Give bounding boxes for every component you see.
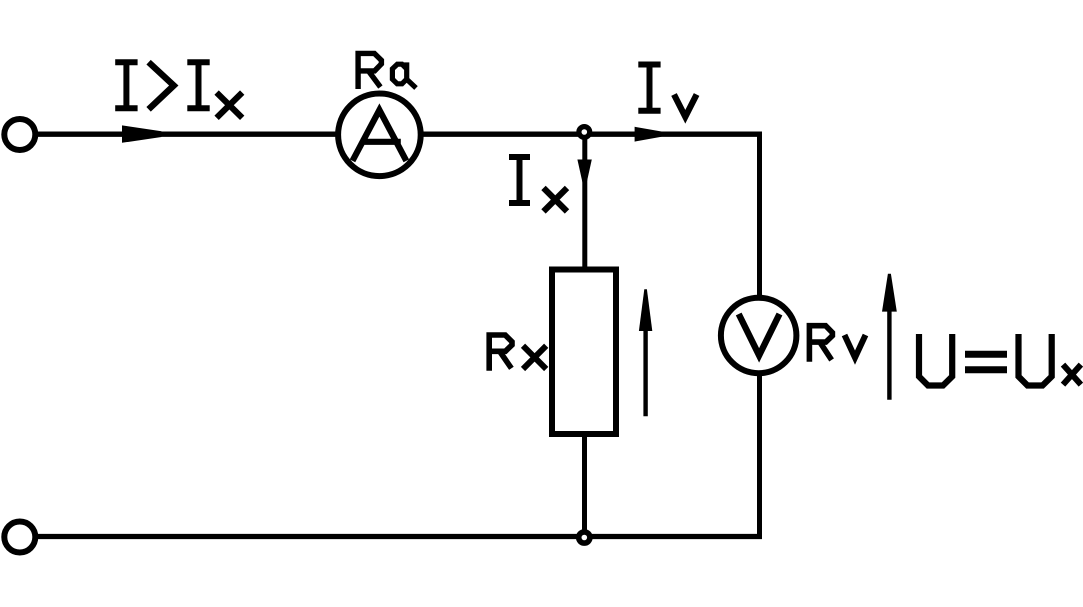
label Ra (358, 53, 416, 89)
wire bottom (35, 534, 762, 539)
wire ammeter to right corner (423, 131, 760, 136)
arrowhead current I (122, 125, 162, 142)
wire junction down to resistor (582, 137, 587, 268)
label Iv (638, 65, 696, 117)
voltage arrow U (887, 305, 891, 400)
label Rx (489, 335, 546, 371)
terminal top-left (4, 119, 35, 150)
label U=Ux (919, 334, 1081, 386)
label I>Ix (115, 62, 242, 118)
ammeter U-A circle (338, 94, 421, 177)
arrowhead Iv (635, 127, 662, 142)
node junction bottom (579, 532, 590, 543)
node junction top (579, 127, 590, 138)
right rail top segment (757, 132, 762, 297)
voltmeter V glyph (739, 314, 780, 355)
label Rv (809, 326, 865, 362)
wire resistor to bottom junction (582, 434, 587, 537)
arrowhead Ix (577, 160, 591, 186)
resistor Rx body (552, 270, 616, 435)
terminal bottom-left (4, 522, 35, 553)
label Ix (509, 157, 567, 211)
voltmeter U-V circle (721, 298, 797, 374)
wire top (terminal to ammeter) (35, 131, 336, 136)
right rail bottom segment (757, 376, 762, 538)
ammeter A glyph (353, 110, 407, 161)
current direction arrow beside Rx (643, 329, 647, 416)
